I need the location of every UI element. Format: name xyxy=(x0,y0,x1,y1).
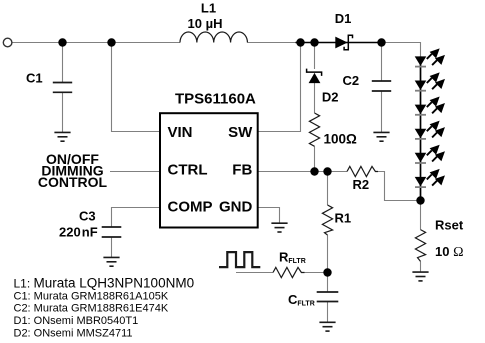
svg-text:D1: ONsemi MBR0540T1: D1: ONsemi MBR0540T1 xyxy=(14,315,139,327)
svg-text:D1: D1 xyxy=(335,11,352,26)
junction dot LED bottom xyxy=(416,196,424,204)
svg-text:RFLTR: RFLTR xyxy=(279,250,306,265)
junction dot top-left 1 xyxy=(58,38,66,46)
resistor R1 xyxy=(322,205,332,235)
input terminal xyxy=(3,38,12,47)
capacitor C1 xyxy=(53,83,72,93)
LED 6 xyxy=(415,170,444,187)
svg-text:C1: C1 xyxy=(26,71,43,86)
svg-text:220 nF: 220 nF xyxy=(59,225,98,240)
capacitor C2 xyxy=(372,81,391,91)
wire: C1 branch xyxy=(62,43,64,83)
wire: Rset bottom to ground xyxy=(420,261,422,272)
junction dot D1 cathode / C2 xyxy=(377,38,385,46)
wire: C2 branch xyxy=(381,43,383,82)
wire: top rail from input to inductor xyxy=(12,42,180,44)
wire: FB row xyxy=(258,171,347,173)
PWM input waveform xyxy=(219,252,260,267)
svg-text:CFLTR: CFLTR xyxy=(288,292,315,307)
capacitor CFLTR xyxy=(317,292,339,302)
junction dot FB node 1 xyxy=(310,167,318,175)
wire: GND pin to ground xyxy=(258,208,280,224)
zener diode D2 xyxy=(307,69,322,84)
svg-text:CTRL: CTRL xyxy=(168,161,208,178)
junction dot top-left 2 xyxy=(107,38,115,46)
svg-text:FB: FB xyxy=(232,161,252,178)
svg-text:D2: ONsemi MMSZ4711: D2: ONsemi MMSZ4711 xyxy=(14,328,133,340)
svg-text:C2: Murata GRM188R61E474K: C2: Murata GRM188R61E474K xyxy=(14,303,169,315)
svg-text:100Ω: 100Ω xyxy=(324,132,358,147)
svg-text:C3: C3 xyxy=(79,209,96,224)
label ON/OFF DIMMING CONTROL xyxy=(38,151,108,190)
wire: CFLTR to ground xyxy=(327,302,329,323)
wire: Rset top xyxy=(420,201,422,230)
wire: CTRL input xyxy=(110,171,160,173)
capacitor C3 xyxy=(102,227,122,237)
ground (C2) xyxy=(373,132,389,141)
svg-text:D2: D2 xyxy=(322,90,339,105)
wire: VIN branch xyxy=(112,43,161,132)
diode D1 (Schottky) xyxy=(296,35,383,50)
svg-text:SW: SW xyxy=(228,124,253,141)
svg-text:TPS61160A: TPS61160A xyxy=(175,90,256,107)
svg-text:10 µH: 10 µH xyxy=(188,16,223,31)
LED 3 xyxy=(415,98,444,115)
junction dot SW node xyxy=(296,38,304,46)
resistor 100 ohm xyxy=(309,113,319,146)
wire: SW to top rail xyxy=(258,43,301,132)
ground (GND pin) xyxy=(271,223,287,232)
svg-text:10 Ω: 10 Ω xyxy=(435,244,463,260)
LED 4 xyxy=(415,122,444,139)
wire: RFLTR to junction xyxy=(305,272,328,274)
wire: inductor to D1 anode xyxy=(248,42,336,44)
ground (C1) xyxy=(54,132,70,141)
svg-text:R1: R1 xyxy=(335,211,352,226)
ground (Rset) xyxy=(412,272,428,281)
ground (CFLTR) xyxy=(319,322,335,331)
wire: COMP to C3 xyxy=(112,208,161,228)
wire: D1 cathode to LED column top and down to LED1 xyxy=(350,43,421,57)
resistor Rset xyxy=(415,230,425,262)
junction dot R1/RFLTR/CFLTR xyxy=(323,268,331,276)
op IC U1 TPS61160A xyxy=(160,113,258,227)
svg-text:GND: GND xyxy=(219,199,253,216)
svg-text:R2: R2 xyxy=(353,177,370,192)
junction dot FB node 2 xyxy=(323,167,331,175)
svg-text:VIN: VIN xyxy=(168,124,193,141)
wire: LED column vertical xyxy=(420,56,422,200)
svg-text:COMP: COMP xyxy=(168,199,213,216)
wire: D2 / 100ohm branch xyxy=(314,43,316,70)
resistor RFLTR xyxy=(273,267,305,277)
wire: R1 branch xyxy=(327,172,329,206)
ground (C3) xyxy=(103,257,119,266)
resistor R2 xyxy=(347,166,378,176)
BOM text xyxy=(14,276,195,340)
LED 2 xyxy=(415,74,444,91)
svg-text:Rset: Rset xyxy=(435,218,464,233)
LED 1 xyxy=(415,50,444,67)
wire: PWM input to RFLTR xyxy=(236,272,273,274)
LED 5 xyxy=(415,146,444,163)
wire: R2 to LED bottom junction xyxy=(378,172,421,201)
svg-text:C2: C2 xyxy=(343,73,360,88)
svg-text:L1: Murata LQH3NPN100NM0: L1: Murata LQH3NPN100NM0 xyxy=(14,276,195,291)
junction dot D2 node xyxy=(310,38,318,46)
svg-text:C1: Murata GRM188R61A105K: C1: Murata GRM188R61A105K xyxy=(14,290,169,302)
svg-text:L1: L1 xyxy=(201,0,216,15)
inductor L1 xyxy=(180,32,247,42)
svg-text:CONTROL: CONTROL xyxy=(38,174,108,190)
